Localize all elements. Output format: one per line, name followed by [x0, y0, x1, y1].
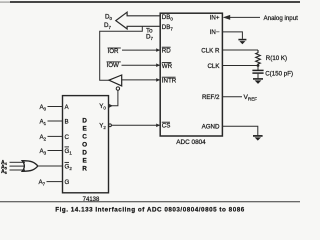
wire tap from DB7 line to buffer output (To D7) [100, 26, 143, 80]
svg-text:Fig. 14.133 Interfaciing of AD: Fig. 14.133 Interfaciing of ADC 0803/080… [55, 206, 245, 213]
wire INTR to buffer input [122, 79, 160, 81]
svg-text:B: B [65, 118, 69, 125]
ground below capacitor [253, 78, 263, 80]
junction node at R-C [257, 64, 260, 67]
wire A1 to decoder B [48, 120, 63, 122]
caption separator rule [0, 201, 300, 203]
svg-text:AGND: AGND [202, 124, 220, 131]
svg-text:IN+: IN+ [210, 15, 220, 22]
svg-text:IOR: IOR [108, 48, 120, 55]
svg-text:G: G [65, 179, 70, 186]
svg-text:E: E [82, 126, 87, 133]
wire A6 into OR gate [10, 169, 26, 171]
svg-text:REF/2: REF/2 [202, 94, 220, 101]
resistor R (10 K) [256, 50, 261, 66]
wire IOW to WR [122, 64, 161, 66]
wire A3 to decoder G1 [48, 150, 63, 152]
wire REF/2 to VREF [222, 96, 242, 98]
pin junction arrow at Y0 [109, 104, 113, 108]
svg-text:C: C [65, 134, 70, 141]
ADC U1 (ADC 0804) box [160, 13, 222, 136]
wire CLK R to resistor [222, 49, 258, 51]
capacitor C (150 pF) [257, 66, 259, 71]
analog input wire with arrowhead into IN+ [229, 16, 260, 18]
svg-text:R: R [82, 166, 87, 173]
svg-text:C(150 pF): C(150 pF) [265, 70, 293, 77]
wire Y0 to buffer enable [109, 90, 118, 106]
wire IN- to ground [222, 32, 242, 39]
wire A7 to decoder G [47, 181, 63, 183]
svg-text:R(10 K): R(10 K) [266, 55, 287, 62]
wire Y2 to CS [111, 124, 160, 126]
ground at IN- [238, 39, 246, 41]
svg-text:E: E [82, 158, 87, 165]
top border rule [0, 1, 10, 3]
svg-text:D: D [82, 118, 87, 125]
svg-text:CLK: CLK [207, 63, 220, 70]
svg-text:WR: WR [162, 63, 173, 70]
svg-text:IOW: IOW [107, 62, 120, 69]
wire A0 to decoder A [48, 106, 63, 108]
enable bubble of buffer [116, 87, 119, 90]
decoder U2 (74138) box [63, 96, 109, 193]
OR gate U3 [22, 161, 38, 172]
wire IOR to RD [122, 49, 160, 51]
wire CLK to R-C junction [222, 65, 258, 67]
pin junction arrow at CS [156, 124, 160, 128]
tri-state buffer U4 (INTR to D7) [109, 75, 122, 86]
svg-text:INTR: INTR [162, 78, 177, 85]
pin junction arrow at WR [156, 63, 160, 67]
svg-text:CLK R: CLK R [201, 47, 220, 54]
svg-text:C: C [82, 134, 87, 141]
ground at AGND [253, 135, 263, 137]
svg-text:ADC 0804: ADC 0804 [176, 139, 206, 146]
wire A2 to decoder C [48, 135, 63, 137]
Y2 output bubble [109, 124, 112, 127]
pin junction arrow at RD [156, 48, 160, 52]
svg-text:CS: CS [162, 123, 171, 130]
svg-text:Analog input: Analog input [264, 15, 299, 22]
svg-text:O: O [82, 142, 87, 149]
svg-text:RD: RD [162, 48, 171, 55]
wire OR gate output to decoder G2 [38, 165, 63, 167]
pin junction arrow at INTR [156, 78, 160, 82]
wire A4 into OR gate [10, 161, 26, 163]
svg-text:D: D [82, 150, 87, 157]
svg-text:IN−: IN− [210, 29, 220, 36]
wire AGND to ground [222, 126, 257, 135]
data bus block arrow to 8086 (D0-D7) [116, 12, 161, 29]
wire A5 into OR gate [10, 165, 26, 167]
